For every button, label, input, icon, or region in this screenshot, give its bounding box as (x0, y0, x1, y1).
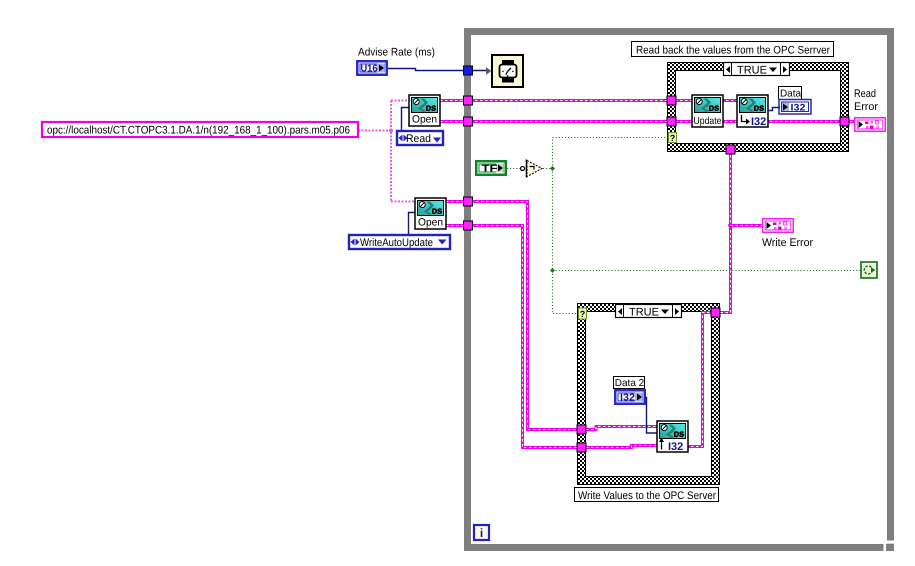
tunnel: case1 right error out (840, 117, 849, 126)
label: Read back the values from the OPC Serrver (632, 42, 834, 57)
wire: green trunk up to case1 selector (553, 138, 669, 169)
terminal: U16 control (356, 60, 388, 76)
selector terminal: case1 question mark (669, 133, 677, 144)
tunnel: case2 left refnum (577, 425, 586, 434)
svg-text:Open: Open (412, 114, 437, 126)
svg-text:TRUE: TRUE (737, 65, 767, 77)
wire: DS write node error out up to case2 top tunnel (magenta) (686, 313, 712, 447)
wire: case1 bottom tunnel down to case2 top tunnel (magenta error trunk) (719, 150, 731, 313)
wire: Open1 refnum out to Update node (magenta) (440, 99, 694, 102)
wire: Read enum to Open 1 (blue) (402, 108, 412, 132)
svg-text:WriteAutoUpdate: WriteAutoUpdate (360, 237, 433, 249)
svg-text:Write Error: Write Error (762, 237, 813, 249)
tunnel: case1 left error (667, 117, 676, 126)
node: wait until next ms multiple (492, 55, 523, 87)
enum constant: WriteAutoUpdate (349, 235, 450, 249)
svg-text:?: ? (580, 309, 586, 319)
wire: string branch vertical (390, 101, 392, 202)
indicator: Write Error cluster (763, 219, 794, 233)
svg-text:TRUE: TRUE (629, 307, 659, 319)
svg-text:Open: Open (418, 217, 443, 229)
wire: green trunk down to case2 selector (553, 169, 580, 314)
wire: U16 to wait node (blue) (388, 69, 487, 71)
svg-text:Update: Update (694, 116, 722, 127)
tunnel: loop border refnum 2 (464, 197, 473, 206)
while loop border (468, 32, 891, 548)
svg-text:Error: Error (854, 101, 878, 113)
terminal: TF boolean constant (475, 160, 507, 176)
tunnel: case2 top right error out (711, 308, 720, 317)
junction: string wire (389, 129, 393, 133)
node: DataSocket Update (692, 95, 723, 127)
node: DataSocket read convert to I32 (737, 95, 768, 128)
wire: error trunk to Write Error indicator (magenta) (731, 224, 767, 227)
svg-text:?: ? (670, 133, 676, 143)
junction: green wire at NOT output (550, 166, 555, 171)
svg-text:I32: I32 (791, 103, 806, 114)
gate: NOT (boolean invert) (521, 160, 543, 178)
selector terminal: case2 question mark (579, 308, 587, 319)
node: DataSocket Open 2 (415, 198, 446, 229)
tunnel: case2 left error (577, 443, 586, 452)
string constant: opc url (42, 122, 358, 137)
svg-text:Read: Read (406, 133, 431, 145)
svg-text:opc://localhost/CT.CTOPC3.1.DA: opc://localhost/CT.CTOPC3.1.DA.1/n(192_1… (47, 125, 350, 137)
svg-text:I32: I32 (668, 441, 683, 453)
node: DataSocket write I32 (657, 421, 688, 453)
wire: NOT output to trunk (green dotted) (543, 168, 552, 170)
node: DataSocket Open 1 (409, 95, 440, 126)
wire: string constant to junction (pink dotted) (358, 130, 391, 132)
indicator: Read Error cluster (855, 118, 886, 132)
control: Data 2 I32 (614, 389, 646, 405)
tunnel: loop border error 1 (464, 117, 473, 126)
wire: green branch to loop condition terminal (553, 270, 862, 272)
selector label: case2 TRUE (616, 305, 682, 319)
tunnel: case1 left refnum (667, 96, 676, 105)
wire: refnum into DS write node (magenta) (586, 427, 660, 430)
wire: Open2 error out down to case2 (magenta) (446, 226, 586, 448)
svg-text:i: i (480, 526, 483, 540)
wire: TF to NOT gate (green dotted) (507, 168, 521, 170)
wire: string branch to Open 1 (391, 100, 411, 102)
junction: green wire at condition branch (550, 268, 555, 273)
svg-text:Read back the values from the: Read back the values from the OPC Serrve… (636, 45, 830, 57)
svg-text:Data: Data (780, 89, 802, 100)
while loop corner notch (884, 541, 895, 552)
label: Write Values to the OPC Server (575, 488, 719, 503)
wire: WriteAutoUpdate enum to Open 2 (blue) (409, 213, 418, 236)
wire: error into DS write node (magenta) (586, 446, 660, 448)
tunnel: loop border refnum 1 (464, 96, 473, 105)
tunnel: case1 bottom error out (726, 145, 735, 154)
wire: Data 2 to DS write node (blue) (645, 398, 660, 434)
case structure 2 border (578, 304, 720, 485)
junction: error trunk (728, 223, 733, 228)
tunnel: loop border U16 (blue) (464, 66, 473, 75)
svg-text:Advise Rate (ms): Advise Rate (ms) (358, 47, 435, 59)
enum constant: Read (397, 131, 443, 145)
tunnel: loop border error 2 (464, 221, 473, 230)
indicator: Data I32 (779, 100, 811, 115)
svg-text:I32: I32 (751, 116, 766, 128)
svg-text:Read: Read (854, 88, 876, 100)
wire: DS-to-I32 node to Data indicator (blue) (768, 108, 780, 111)
svg-text:Data 2: Data 2 (615, 378, 645, 389)
label: Data 2 (614, 377, 645, 390)
terminal: loop iteration i (474, 525, 489, 540)
wire: Open1 error out across case 1 (magenta) (440, 120, 858, 123)
svg-text:TF: TF (482, 164, 498, 175)
wire: Open2 refnum out down to case2 (magenta) (446, 202, 586, 430)
wire: string branch to Open 2 (391, 201, 417, 203)
svg-text:I32: I32 (620, 393, 635, 404)
label: Data (779, 87, 802, 100)
terminal: loop condition (continue arrow) (861, 262, 877, 278)
case structure 1 border (668, 63, 849, 152)
svg-text:U16: U16 (361, 64, 378, 75)
wire: Update node to DS-to-I32 node (magenta) (721, 99, 739, 102)
selector label: case1 TRUE (724, 63, 790, 77)
svg-text:Write Values to the OPC Server: Write Values to the OPC Server (578, 490, 716, 502)
